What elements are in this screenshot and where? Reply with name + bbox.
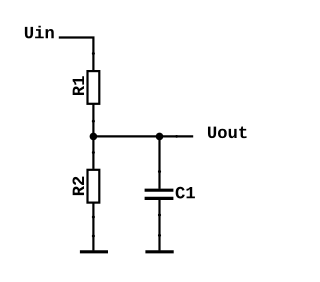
wire joint nub xyxy=(92,52,95,55)
ground xyxy=(80,250,108,253)
wire joint nub xyxy=(92,120,95,123)
resistor R2 xyxy=(72,170,99,203)
capacitor C1 xyxy=(145,187,195,199)
wire joint nub xyxy=(158,213,161,216)
wire joint nub xyxy=(92,215,95,218)
wire joint nub xyxy=(92,234,95,237)
wire xyxy=(92,204,94,251)
wire joint nub xyxy=(158,234,161,237)
wire joint nub xyxy=(158,170,161,173)
junction node xyxy=(156,133,164,141)
node Uout xyxy=(208,127,247,139)
wire xyxy=(93,135,193,137)
ground xyxy=(145,250,173,253)
wire xyxy=(92,136,94,169)
resistor R1 xyxy=(73,71,100,104)
node Uin xyxy=(25,26,54,39)
wire xyxy=(92,105,94,137)
wire xyxy=(59,38,94,71)
junction node xyxy=(90,133,98,141)
wire xyxy=(158,200,160,250)
wire joint nub xyxy=(175,135,178,138)
wire joint nub xyxy=(92,151,95,154)
wire xyxy=(158,136,160,188)
